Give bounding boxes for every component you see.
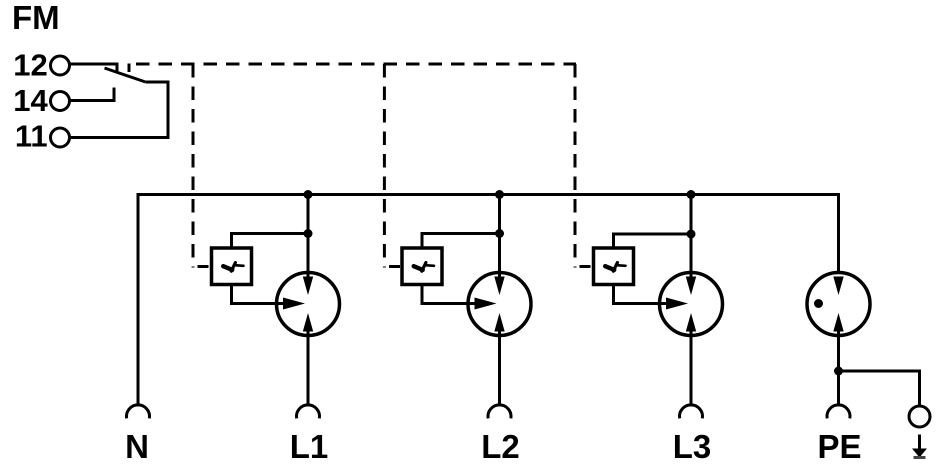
terminal label PE — [817, 428, 861, 465]
wire L3 drop upper — [690, 195, 693, 278]
terminal label L2 — [481, 428, 520, 465]
dashed signal rail — [136, 63, 576, 66]
wire L3 lower — [690, 331, 693, 407]
node PE earth junction — [834, 367, 843, 376]
svg-text:N: N — [125, 428, 149, 465]
bus wire N to PE — [138, 195, 839, 407]
arrester arrows PE — [833, 277, 843, 332]
arrow into arrester L3 — [666, 298, 688, 310]
wire L1 disconnector to arrester — [232, 285, 285, 304]
arrester arrows L1 — [303, 277, 313, 332]
terminal 12 label — [13, 48, 47, 83]
arrester circle L3 — [660, 273, 723, 336]
terminal label N — [125, 428, 149, 465]
wire L1 branch to disconnector — [232, 234, 309, 249]
wire L2 branch to disconnector — [422, 234, 500, 249]
arrester circle L1 — [277, 273, 340, 336]
terminal 12 circle — [51, 56, 70, 75]
wire 12 to contact — [70, 64, 118, 72]
wire PE lower — [837, 331, 840, 407]
svg-text:14: 14 — [13, 83, 48, 118]
node L2 branch junction — [495, 229, 504, 238]
wire L3 branch to disconnector — [614, 234, 692, 248]
wire 11 common — [70, 82, 169, 138]
node L1 bus junction — [304, 190, 313, 199]
earth terminal circle — [909, 406, 930, 427]
svg-text:L1: L1 — [290, 428, 329, 465]
disconnector box L3 — [594, 248, 634, 285]
switch blade K1 — [105, 68, 146, 82]
svg-text:11: 11 — [15, 119, 48, 154]
terminal 11 circle — [51, 128, 70, 147]
disconnector box L1 — [212, 248, 252, 285]
terminal arc L3 — [680, 405, 703, 418]
svg-text:L2: L2 — [481, 428, 520, 465]
terminal 11 label — [15, 119, 48, 154]
wire L1 drop upper — [307, 195, 310, 278]
wire to earth terminal — [839, 371, 920, 407]
wire L2 disconnector to arrester — [422, 285, 476, 304]
disconnector box L2 — [402, 248, 442, 285]
arrester arrows L3 — [686, 277, 696, 332]
wire L3 disconnector to arrester — [614, 285, 668, 304]
arrester circle PE — [807, 273, 870, 336]
svg-text:PE: PE — [817, 428, 861, 465]
node L2 bus junction — [495, 190, 504, 199]
wire L1 lower — [307, 331, 310, 407]
flash symbol L3 — [605, 263, 625, 272]
terminal label L3 — [673, 428, 712, 465]
arrester circle L2 — [468, 273, 531, 336]
node L1 branch junction — [304, 229, 313, 238]
dashed drop L2 — [384, 64, 400, 268]
arrester arrows L2 — [494, 277, 504, 332]
indicator dot PE — [814, 299, 823, 308]
mechanical linkage tick — [128, 64, 131, 73]
label FM — [12, 0, 60, 36]
wire 14 to contact — [70, 88, 115, 101]
terminal 14 label — [13, 83, 48, 118]
terminal arc PE — [827, 405, 850, 418]
node L3 branch junction — [687, 230, 696, 239]
terminal arc N — [127, 405, 150, 418]
svg-text:L3: L3 — [673, 428, 712, 465]
wire L2 lower — [498, 331, 501, 407]
svg-text:12: 12 — [13, 48, 47, 83]
wire L2 drop upper — [498, 195, 501, 278]
terminal arc L2 — [488, 405, 511, 418]
terminal label L1 — [290, 428, 329, 465]
flash symbol L1 — [223, 263, 243, 272]
dashed drop L3 — [575, 64, 591, 268]
dashed drop L1 — [193, 64, 209, 268]
flash symbol L2 — [414, 263, 434, 272]
arrow into arrester L1 — [283, 298, 305, 310]
arrow into arrester L2 — [475, 298, 497, 310]
terminal 14 circle — [51, 92, 70, 111]
svg-text:FM: FM — [12, 0, 60, 36]
ground symbol — [912, 435, 927, 458]
node L3 bus junction — [687, 190, 696, 199]
terminal arc L1 — [297, 405, 320, 418]
